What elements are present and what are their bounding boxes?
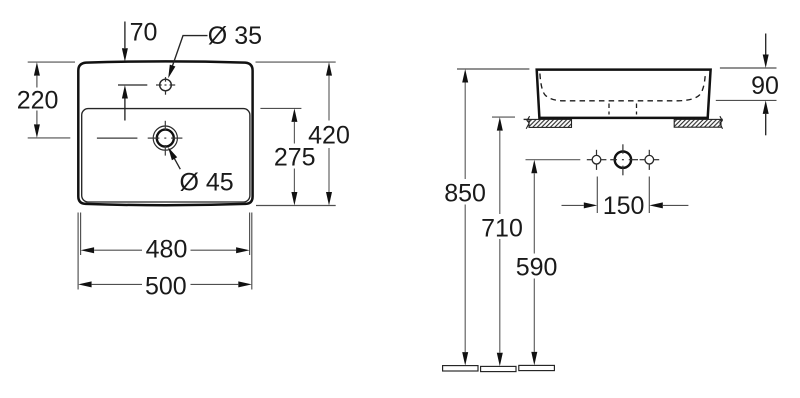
dim 70 upper line and arrow (124, 22, 126, 49)
svg-text:850: 850 (444, 180, 486, 208)
dim 150 arrows and tails (562, 204, 584, 206)
dim 710 line and arrows (497, 117, 503, 131)
svg-text:220: 220 (17, 87, 59, 115)
svg-text:500: 500 (145, 272, 187, 300)
floor bar right (519, 365, 555, 370)
svg-text:275: 275 (274, 144, 316, 172)
bowl dashed profile (540, 74, 705, 101)
drain hole outer circle (153, 126, 177, 150)
dim 275 line and arrows (291, 108, 297, 122)
svg-text:590: 590 (516, 253, 558, 281)
floor bar middle (481, 366, 516, 371)
rear hole center large (615, 152, 631, 168)
rear hole right small (645, 155, 654, 164)
basin inner rim (top view) (82, 109, 250, 202)
basin outer outline (top view) (78, 61, 252, 205)
svg-text:90: 90 (751, 72, 779, 100)
countertop left hatched strip (529, 119, 572, 127)
dim 500 extension lines (77, 213, 79, 290)
dim 500 line and arrows (78, 281, 92, 287)
leader Ø45 (172, 155, 180, 170)
drain dashes (side view) (609, 104, 637, 115)
svg-text:Ø 45: Ø 45 (180, 169, 234, 197)
dim 590 line and arrows (531, 160, 537, 174)
counter line stubs (524, 118, 530, 120)
svg-text:150: 150 (603, 192, 645, 220)
dim 850 extension line (457, 68, 529, 70)
svg-text:710: 710 (481, 214, 523, 242)
rear faucet holes centerline (526, 159, 581, 161)
dim 710 extension line (492, 116, 515, 118)
faucet hole circle (Ø35) (160, 79, 172, 91)
dim 275 extension line (260, 107, 301, 109)
dim 480 line and arrows (81, 247, 95, 253)
dim 150 extension lines (596, 177, 598, 214)
floor bar left (443, 366, 478, 371)
rear hole left small (592, 155, 601, 164)
drain crosshair (97, 121, 182, 156)
countertop right hatched strip (674, 119, 721, 127)
dim 70 lower arrow and tick (122, 85, 128, 99)
dim 90 extension lines (720, 67, 777, 69)
drain hole inner circle (Ø45) (157, 130, 174, 147)
break mark left (526, 116, 529, 129)
svg-text:70: 70 (130, 19, 158, 47)
faucet hole crosshair (156, 77, 175, 95)
dim 220 extension lines (28, 61, 75, 63)
basin profile (side view) (537, 70, 711, 118)
leader Ø35 (171, 36, 208, 72)
dim 220 line and arrows (34, 62, 40, 76)
dim 850 line and arrows (462, 69, 468, 83)
svg-text:480: 480 (146, 235, 188, 263)
svg-text:Ø 35: Ø 35 (208, 22, 262, 50)
dim 420 extension lines (256, 61, 336, 63)
break mark right (720, 116, 723, 129)
dim 480 extension lines (80, 213, 82, 256)
dim 420 line and arrows (326, 62, 332, 76)
dim 90 arrows and line (765, 34, 767, 55)
